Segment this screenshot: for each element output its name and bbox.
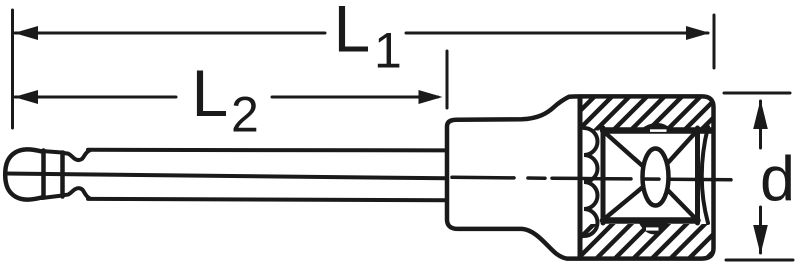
svg-text:d: d bbox=[760, 145, 795, 215]
svg-text:2: 2 bbox=[231, 87, 259, 143]
svg-text:L: L bbox=[192, 56, 229, 130]
svg-text:L: L bbox=[334, 0, 371, 66]
svg-text:1: 1 bbox=[374, 23, 402, 79]
